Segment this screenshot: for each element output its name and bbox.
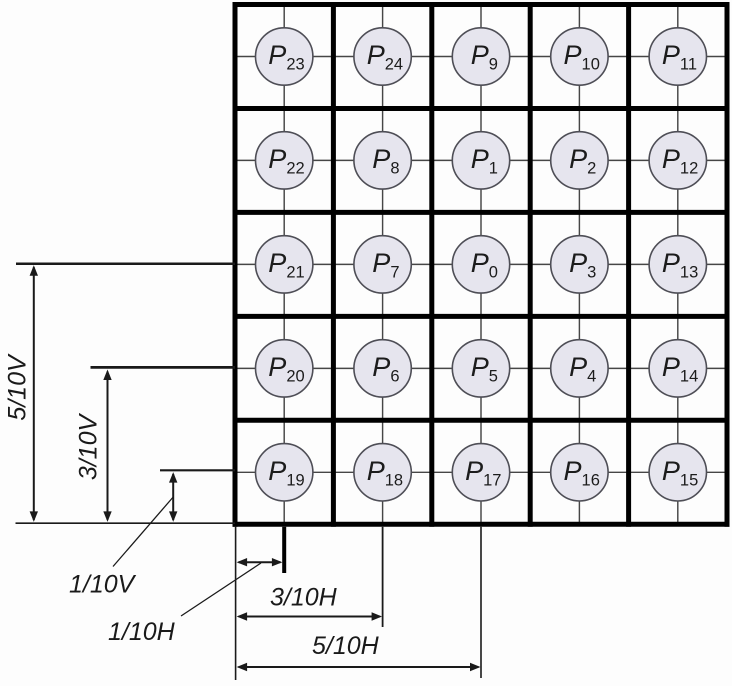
dimension arrow 3/10V (107, 372, 109, 520)
svg-text:3/10V: 3/10V (75, 413, 103, 481)
node P0 (452, 236, 509, 293)
node P22 (256, 132, 313, 189)
thick extension line below column P19 (1/10H reference) (282, 527, 286, 573)
node P23 (256, 28, 313, 85)
column 4 vertical cross wire (578, 5, 580, 525)
node P4 (551, 340, 608, 397)
extension line below column P18 (3/10H reference) (382, 527, 384, 627)
column 5 vertical cross wire (677, 5, 679, 525)
dimension arrow 1/10H (239, 561, 281, 563)
row 1 horizontal cross wire (235, 56, 727, 58)
node P15 (649, 444, 706, 501)
row 3 horizontal cross wire (235, 263, 727, 265)
dimension arrow 5/10V (33, 267, 35, 520)
svg-text:3/10H: 3/10H (270, 584, 338, 612)
node P18 (354, 444, 411, 501)
node P5 (452, 340, 509, 397)
node P9 (452, 28, 509, 85)
node P7 (354, 236, 411, 293)
svg-text:1/10H: 1/10H (108, 618, 176, 646)
leader line for 1/10V (113, 497, 173, 567)
extension line at row P20 center (3/10V reference) (91, 366, 236, 369)
node P14 (649, 340, 706, 397)
node P17 (452, 444, 509, 501)
node P8 (354, 132, 411, 189)
dimension arrow 5/10H (239, 666, 479, 668)
dimension arrow 1/10V (172, 474, 174, 520)
leader line for 1/10H (181, 563, 261, 616)
svg-text:5/10V: 5/10V (4, 353, 32, 421)
row 4 horizontal cross wire (235, 367, 727, 369)
node P2 (551, 132, 608, 189)
node P1 (452, 132, 509, 189)
node P12 (649, 132, 706, 189)
column 1 vertical cross wire (283, 5, 285, 525)
node P6 (354, 340, 411, 397)
extension line at row P19 center (1/10V reference) (160, 469, 235, 471)
extension line at row P21 center (5/10V reference) (16, 262, 235, 265)
extension line below column P17 (5/10H reference) (480, 527, 482, 678)
extension line below grid at left edge (235, 527, 237, 680)
node P20 (256, 340, 313, 397)
node P21 (256, 236, 313, 293)
baseline extension at grid bottom (16, 522, 236, 524)
row 5 horizontal cross wire (235, 471, 727, 473)
node P3 (551, 236, 608, 293)
node P10 (551, 28, 608, 85)
grid frame and cell borders (233, 2, 730, 527)
column 3 vertical cross wire (480, 5, 482, 525)
node P19 (256, 444, 313, 501)
node P13 (649, 236, 706, 293)
node P24 (354, 28, 411, 85)
dimension arrow 3/10H (239, 616, 381, 618)
column 2 vertical cross wire (382, 5, 384, 525)
row 2 horizontal cross wire (235, 159, 727, 161)
node P16 (551, 444, 608, 501)
node P11 (649, 28, 706, 85)
svg-text:1/10V: 1/10V (69, 571, 137, 599)
svg-text:5/10H: 5/10H (312, 632, 380, 660)
